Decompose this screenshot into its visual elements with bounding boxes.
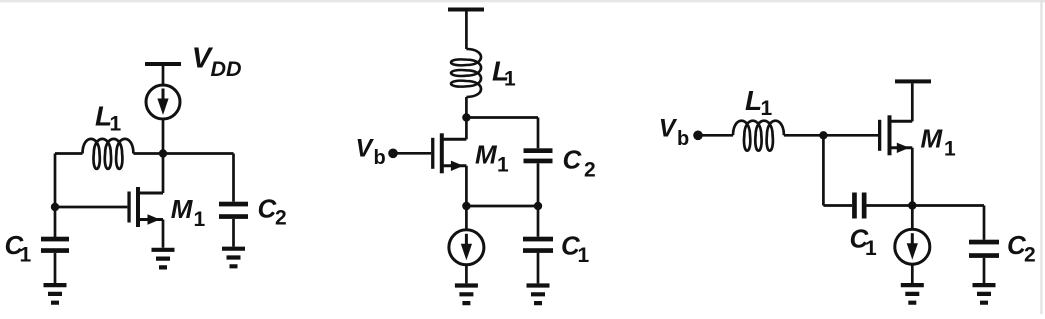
wire supply to inductor xyxy=(465,12,468,50)
ground (C1) xyxy=(44,285,67,303)
svg-text:1: 1 xyxy=(20,244,32,267)
wire Vb to inductor xyxy=(698,134,733,137)
wire source down xyxy=(911,148,914,229)
wire source down xyxy=(465,166,468,230)
label L1 xyxy=(492,56,516,91)
wire inductor to drain node xyxy=(465,97,468,139)
svg-text:1: 1 xyxy=(944,138,956,161)
svg-text:b: b xyxy=(677,128,689,150)
wire drain up xyxy=(911,83,914,121)
transistor M1 xyxy=(127,187,163,227)
svg-text:V: V xyxy=(356,135,375,163)
node A (drain node) xyxy=(462,113,470,121)
wire C2 top xyxy=(232,154,235,202)
svg-text:M: M xyxy=(921,124,944,154)
current source I1 xyxy=(449,230,484,265)
svg-text:DD: DD xyxy=(211,57,242,81)
svg-text:2: 2 xyxy=(1024,244,1036,267)
label Vb xyxy=(659,114,690,150)
node B (gate node) xyxy=(51,203,59,211)
terminal Vb xyxy=(388,149,398,159)
wire drain node down to drain xyxy=(162,150,165,193)
capacitor C2 xyxy=(219,202,248,219)
wire C2 to ground xyxy=(983,258,986,283)
svg-text:1: 1 xyxy=(761,97,773,120)
terminal Vb xyxy=(693,131,703,141)
inductor L1 (vertical) xyxy=(451,49,481,97)
ground (C1) xyxy=(527,286,550,304)
svg-text:V: V xyxy=(659,114,678,142)
label C2 xyxy=(563,144,596,181)
wire gate xyxy=(55,206,127,209)
svg-text:C: C xyxy=(563,144,583,174)
node B (source node) xyxy=(908,201,916,209)
wire inductor to C2 branch xyxy=(133,152,233,155)
svg-text:1: 1 xyxy=(110,113,122,136)
label VDD xyxy=(192,43,242,82)
node A (drain node) xyxy=(159,149,167,157)
ground (current source) xyxy=(455,286,478,304)
label M1 xyxy=(921,124,957,161)
svg-text:1: 1 xyxy=(504,68,516,91)
svg-text:1: 1 xyxy=(497,154,509,177)
label C2 xyxy=(258,194,287,230)
inductor L1 xyxy=(733,121,784,151)
wire drain node to C2 xyxy=(466,118,538,149)
wire VDD bar to current source xyxy=(162,66,165,85)
ground (M1 source) xyxy=(152,250,175,268)
label L1 xyxy=(745,85,773,120)
node B (source node) xyxy=(462,202,470,210)
capacitor C1 xyxy=(41,237,69,253)
wire gate node down xyxy=(823,135,852,205)
page right border xyxy=(1040,0,1042,314)
transistor M1 xyxy=(431,133,466,173)
wire C1 top xyxy=(537,206,540,237)
ground (current source) xyxy=(901,285,924,303)
node A (gate node) xyxy=(819,131,827,139)
capacitor C2 xyxy=(969,240,999,258)
current source I1 xyxy=(895,229,930,264)
wire C2 to source node xyxy=(537,163,540,206)
label M1 xyxy=(171,194,206,231)
svg-text:M: M xyxy=(475,140,498,170)
capacitor C1 xyxy=(523,237,553,253)
svg-text:2: 2 xyxy=(584,159,596,182)
inductor L1 xyxy=(83,139,134,169)
svg-text:1: 1 xyxy=(194,208,206,231)
label C2 xyxy=(1007,230,1036,267)
svg-text:1: 1 xyxy=(865,237,877,260)
label L1 xyxy=(95,101,122,136)
wire inductor to gate xyxy=(784,134,878,137)
ground (C2) xyxy=(973,285,996,303)
capacitor C2 xyxy=(524,148,553,163)
wire current source to ground xyxy=(911,264,914,283)
current source I1 xyxy=(146,85,180,119)
svg-text:1: 1 xyxy=(578,244,590,267)
supply bar VDD xyxy=(145,62,181,66)
transistor M1 xyxy=(878,115,912,155)
wire C1 to ground xyxy=(54,253,57,283)
wire C1 to source node xyxy=(867,204,913,207)
label C1 xyxy=(561,231,590,268)
wire left rail top xyxy=(55,152,83,155)
supply bar xyxy=(895,79,931,83)
node C (C1 top) xyxy=(534,202,542,210)
wire current source to ground xyxy=(465,265,468,284)
label Vb xyxy=(356,135,386,169)
wire source node to C2 xyxy=(912,206,984,240)
label C1 xyxy=(5,230,32,267)
svg-text:M: M xyxy=(171,194,194,224)
svg-text:b: b xyxy=(374,147,386,169)
wire left rail down xyxy=(54,154,57,238)
svg-text:2: 2 xyxy=(275,207,287,230)
supply bar xyxy=(448,8,484,12)
wire source node to C1 node xyxy=(466,205,538,208)
wire gate xyxy=(393,152,431,155)
label C1 xyxy=(850,224,878,261)
wire source to ground xyxy=(162,220,165,248)
wire C2 to ground xyxy=(232,219,235,247)
label M1 xyxy=(475,140,509,177)
ground (C2) xyxy=(222,249,245,267)
wire C1 to ground xyxy=(537,253,540,284)
page top border xyxy=(0,0,1045,2)
wire current source to drain node xyxy=(162,119,165,150)
capacitor C1 (horizontal) xyxy=(852,193,866,219)
